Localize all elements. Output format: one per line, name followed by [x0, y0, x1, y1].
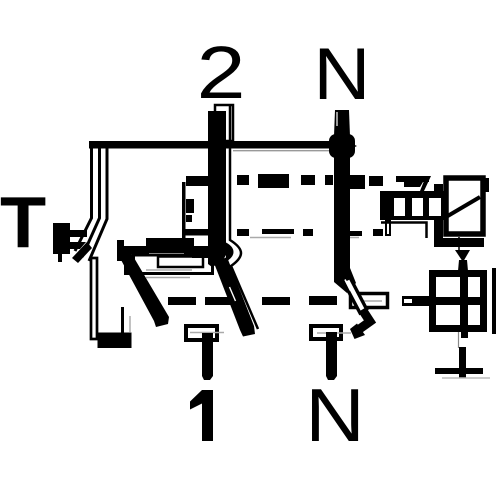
- relay top wire step: [434, 184, 443, 192]
- terminal N stud hairline: [336, 112, 338, 126]
- relay coil left lead stub: [386, 221, 390, 235]
- pole2 conductor: [208, 140, 226, 267]
- pole1 moving blade: [120, 251, 169, 327]
- terminal 1 box: [186, 326, 217, 340]
- svg-text:N: N: [313, 34, 370, 116]
- poleN blade hook: [356, 310, 370, 332]
- trip linkage drop wire: [182, 182, 186, 240]
- test button blade tip: [72, 242, 92, 263]
- test button contact lower: [63, 242, 86, 249]
- dashed trip line middle: [237, 229, 383, 236]
- toroid secondary winding box: [134, 255, 213, 274]
- poleN contact grey line: [356, 300, 382, 302]
- winding bridge to conductor: [192, 246, 210, 258]
- svg-text:T: T: [0, 182, 46, 263]
- top bus wire: [89, 141, 335, 149]
- toroid cross vertical: [460, 271, 468, 331]
- toroid bottom stub: [461, 332, 468, 338]
- toroid secondary grey line: [146, 269, 192, 271]
- terminal N grey line: [317, 332, 351, 334]
- trip wire down: [458, 237, 460, 252]
- winding left lead: [120, 246, 149, 254]
- toroid core square: [433, 274, 484, 329]
- poleN elbow: [334, 268, 356, 293]
- pole2 outline line: [230, 105, 258, 329]
- flux cross vertical: [459, 347, 466, 378]
- poleN conductor: [334, 146, 350, 276]
- relay coil window 2: [412, 198, 423, 216]
- terminal 2 stud: [208, 111, 226, 141]
- test branch riser wire: [121, 307, 124, 333]
- toroid cross horizontal: [431, 297, 487, 305]
- dashed middle grey lines: [250, 237, 291, 239]
- relay armature box: [446, 178, 483, 234]
- relay bottom thick wire: [434, 220, 484, 243]
- toroid right double edge: [492, 268, 496, 334]
- test button stem: [58, 254, 62, 262]
- test branch lower double wire: [91, 258, 97, 339]
- poleN blade outlined: [343, 278, 367, 314]
- terminal N stud: [326, 332, 337, 380]
- trip linkage block upper: [186, 199, 194, 213]
- relay top wire underline: [404, 182, 423, 187]
- terminal 1 grey line: [190, 332, 224, 334]
- trip stub into toroid: [458, 260, 468, 271]
- winding link to conductor: [184, 229, 210, 236]
- trip linkage block lower: [186, 215, 192, 222]
- test branch foot: [98, 333, 132, 349]
- test button contact upper: [62, 230, 87, 237]
- toroid secondary inner box: [158, 257, 203, 268]
- winding block right: [184, 240, 194, 256]
- dashed trip line lower: [147, 296, 337, 305]
- bus underside hairline: [233, 150, 329, 152]
- relay coil body: [380, 191, 444, 220]
- dashed trip line upper: [237, 174, 383, 189]
- pole1 pivot post: [117, 240, 124, 261]
- pole2 conductor bump: [226, 243, 234, 262]
- svg-text:N: N: [305, 373, 365, 457]
- pole1 pivot lower: [124, 253, 131, 275]
- trip arrow: [455, 250, 470, 262]
- toroid left stub notch: [404, 299, 412, 303]
- poleN elbow slash: [345, 280, 351, 291]
- toroid primary winding bar: [146, 238, 194, 253]
- flux cross horizontal: [435, 368, 483, 374]
- terminal 2 outline: [215, 105, 233, 141]
- relay box notch: [483, 178, 489, 192]
- relay armature diagonal: [446, 197, 480, 217]
- relay top wire diagonal: [420, 176, 431, 191]
- test button body: [53, 223, 70, 254]
- relay coil window 1: [394, 198, 405, 216]
- terminal 1 stud: [202, 333, 213, 380]
- node N junction: [329, 134, 355, 158]
- poleN fixed contact box: [351, 294, 388, 308]
- left test branch triple wire: [75, 143, 107, 261]
- pole2 moving blade: [214, 257, 255, 337]
- relay top wire bar: [396, 176, 429, 182]
- svg-text:2: 2: [197, 31, 246, 114]
- test branch hairline: [129, 316, 131, 332]
- trip linkage step wire: [186, 176, 211, 186]
- toroid secondary lower hairline: [146, 277, 190, 279]
- terminal N stud: [334, 110, 350, 136]
- terminal N bottom box: [311, 326, 341, 339]
- poleN blade tip: [350, 324, 365, 340]
- relay bottom thin wire: [381, 223, 427, 239]
- label terminal 1: [190, 390, 213, 441]
- pole2 blade sliver: [230, 287, 236, 301]
- toroid left stub: [402, 296, 431, 306]
- toroid bottom hairline: [458, 332, 460, 348]
- relay coil window 3: [429, 198, 441, 216]
- flux grey line: [442, 377, 490, 379]
